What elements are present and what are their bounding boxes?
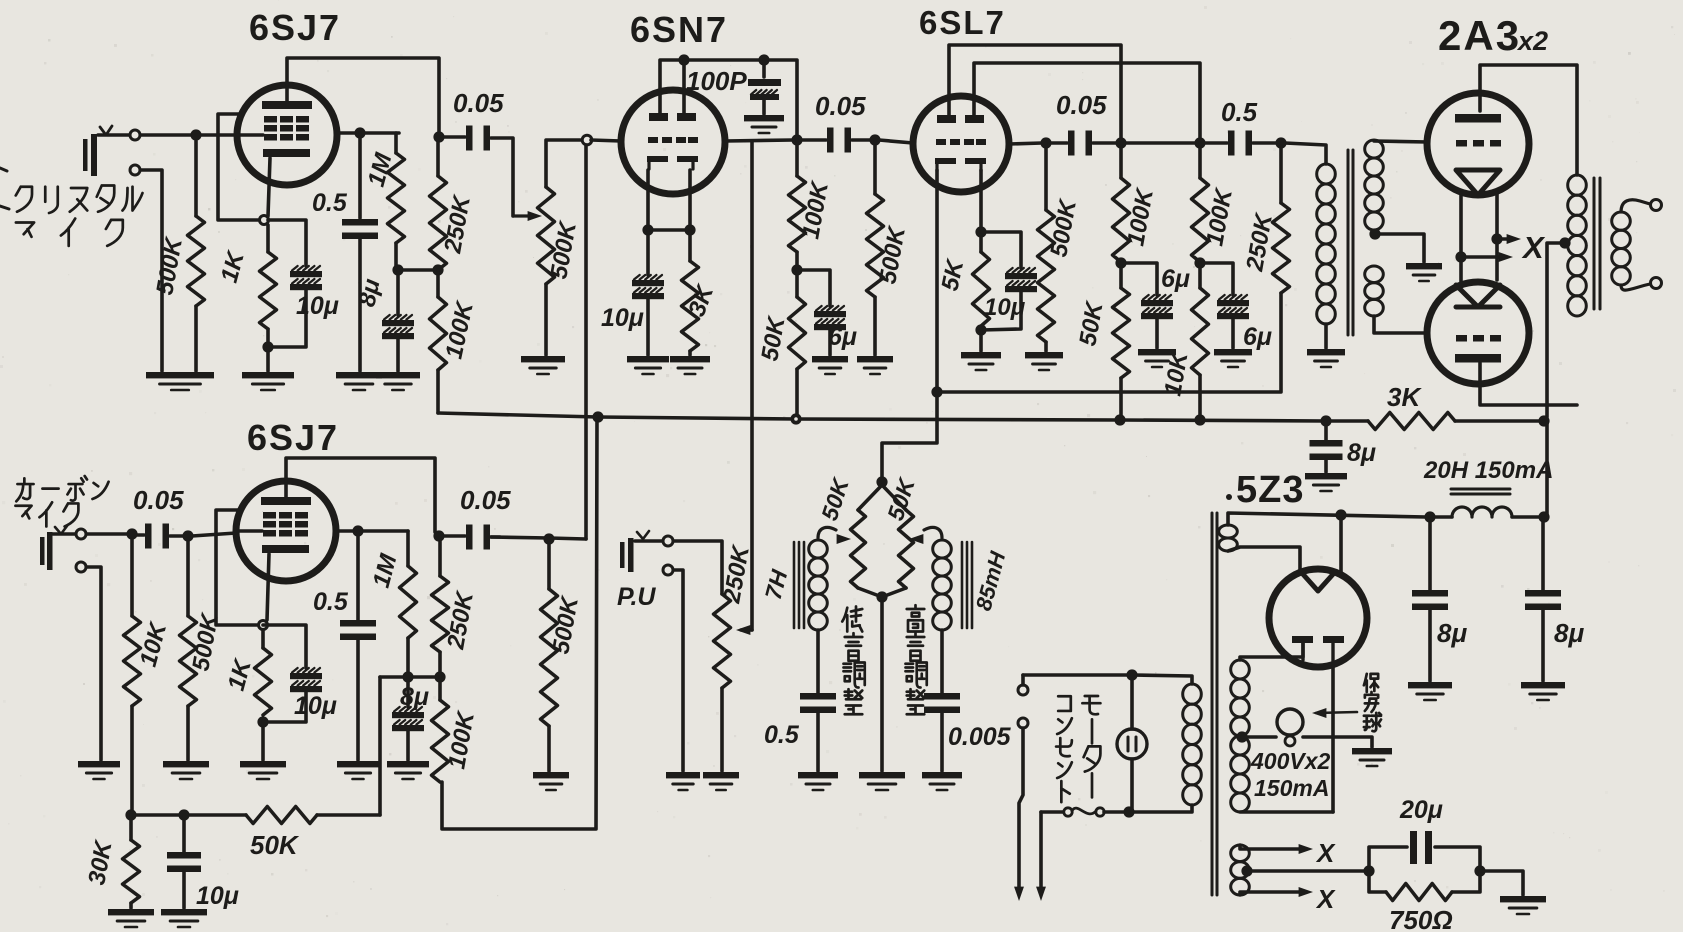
svg-text:8μ: 8μ [1554, 618, 1584, 648]
svg-text:0.05: 0.05 [815, 91, 866, 121]
svg-text:5Z3: 5Z3 [1236, 469, 1304, 511]
svg-text:6SL7: 6SL7 [919, 4, 1006, 41]
svg-text:6μ: 6μ [1161, 265, 1190, 293]
svg-text:P.U: P.U [617, 583, 656, 611]
svg-text:400Vx2: 400Vx2 [1250, 748, 1331, 774]
svg-text:6SJ7: 6SJ7 [247, 417, 339, 458]
svg-text:X: X [1315, 838, 1336, 868]
svg-text:0.05: 0.05 [1056, 90, 1107, 120]
svg-text:10μ: 10μ [196, 882, 239, 910]
svg-text:10μ: 10μ [294, 692, 337, 720]
svg-text:0.5: 0.5 [764, 721, 800, 749]
svg-text:10μ: 10μ [984, 294, 1026, 321]
svg-text:20μ: 20μ [1399, 796, 1443, 824]
svg-text:0.5: 0.5 [313, 588, 349, 616]
svg-text:8μ: 8μ [1437, 618, 1467, 648]
svg-text:6μ: 6μ [1243, 323, 1272, 351]
svg-text:x2: x2 [1516, 26, 1548, 56]
svg-text:X: X [1315, 884, 1336, 914]
svg-text:6SJ7: 6SJ7 [249, 7, 341, 48]
svg-text:3K: 3K [1387, 382, 1422, 412]
svg-text:2A3: 2A3 [1438, 12, 1521, 59]
svg-text:10μ: 10μ [601, 304, 644, 332]
svg-text:X: X [1521, 230, 1546, 265]
svg-text:6SN7: 6SN7 [630, 9, 728, 50]
svg-text:6μ: 6μ [828, 323, 857, 351]
svg-text:8μ: 8μ [1347, 439, 1376, 467]
svg-text:0.05: 0.05 [133, 485, 184, 515]
svg-text:150mA: 150mA [1254, 775, 1329, 801]
svg-text:0.5: 0.5 [312, 189, 348, 217]
svg-text:8μ: 8μ [400, 683, 429, 711]
svg-text:0.05: 0.05 [453, 88, 504, 118]
svg-text:0.5: 0.5 [1221, 97, 1258, 127]
svg-text:100P: 100P [686, 66, 747, 96]
svg-text:750Ω: 750Ω [1389, 905, 1453, 932]
svg-text:10μ: 10μ [296, 292, 339, 320]
svg-text:0.05: 0.05 [460, 485, 511, 515]
svg-text:0.005: 0.005 [948, 723, 1012, 751]
svg-text:50K: 50K [250, 830, 300, 860]
svg-text:20H 150mA: 20H 150mA [1423, 457, 1553, 484]
